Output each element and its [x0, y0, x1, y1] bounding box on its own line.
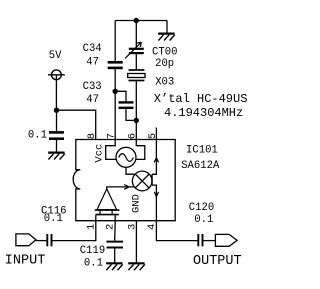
node top rail junction: [134, 18, 139, 23]
wire pin1 to input cap: [52, 221, 95, 241]
wire amp leg pin1: [95, 215, 97, 220]
svg-text:6: 6: [127, 133, 139, 139]
svg-text:47: 47: [86, 57, 99, 69]
arrow amp to mixer: [124, 185, 129, 190]
svg-text:X03: X03: [155, 77, 174, 89]
amplifier pedestal: [100, 211, 112, 214]
svg-text:X’tal HC-49US: X’tal HC-49US: [154, 92, 248, 106]
svg-text:0.1: 0.1: [194, 214, 213, 226]
svg-text:5V: 5V: [49, 50, 62, 62]
svg-text:0.1: 0.1: [44, 213, 63, 225]
connector INPUT: [16, 234, 36, 246]
wire C34 to pin7: [114, 69, 116, 139]
ground top right: [158, 34, 175, 41]
wire C33 to pin6 node: [126, 109, 136, 120]
oscillator yoke left (pin7): [106, 140, 117, 160]
svg-text:Vcc: Vcc: [94, 144, 106, 163]
amplifier lower bar: [95, 214, 118, 216]
svg-text:20p: 20p: [155, 58, 174, 70]
capacitor C116: [47, 234, 51, 246]
wire output cap to connector: [204, 240, 216, 242]
svg-text:SA612A: SA612A: [181, 160, 220, 172]
wire pin2 to C119: [114, 221, 117, 241]
crystal X03: [128, 70, 145, 81]
svg-text:4: 4: [146, 224, 158, 230]
ground pin3: [128, 263, 145, 270]
connector OUTPUT: [215, 234, 237, 246]
oscillator yoke right (pin6): [136, 140, 145, 160]
svg-text:GND: GND: [131, 194, 143, 213]
arrow up to pin5: [154, 158, 158, 163]
svg-text:3: 3: [126, 224, 138, 230]
svg-text:C120: C120: [189, 202, 214, 214]
power terminal 5V: [48, 70, 65, 80]
wire pin3 to ground: [135, 221, 137, 263]
capacitor C120: [198, 234, 202, 246]
node 5V rail junction: [54, 108, 59, 113]
mixer output bar: [151, 174, 153, 185]
svg-text:INPUT: INPUT: [5, 253, 46, 268]
capacitor C34: [108, 62, 123, 68]
svg-text:C34: C34: [83, 43, 102, 55]
svg-text:47: 47: [86, 94, 99, 106]
wire amp output to mixer with arrow: [107, 187, 135, 189]
svg-text:0.1: 0.1: [28, 130, 47, 142]
svg-text:CT00: CT00: [152, 46, 177, 58]
wire 5V down: [55, 75, 57, 110]
svg-text:C33: C33: [83, 81, 102, 93]
wire oscillator to mixer: [126, 167, 134, 174]
svg-text:1: 1: [85, 224, 97, 230]
svg-text:2: 2: [105, 224, 117, 230]
wire 5V to pin8: [57, 110, 96, 139]
wire amp leg pin2: [114, 215, 116, 220]
svg-text:5: 5: [147, 133, 159, 139]
wire mixer bar to pin4: [152, 185, 156, 221]
wire CT00 branch upper: [135, 21, 137, 48]
op-amp U1 IC outline SA612A: [73, 140, 175, 221]
wire C34 branch upper: [114, 21, 116, 62]
amplifier triangle Q: [97, 189, 117, 210]
arrow down to pin4: [154, 192, 158, 197]
mixer X diagonals: [135, 174, 149, 188]
wire C119 to ground: [114, 249, 116, 263]
trimmer capacitor CT00: [125, 42, 144, 58]
wire crystal to pin6: [135, 81, 137, 139]
node C34-C33 junction: [113, 89, 118, 94]
svg-text:C119: C119: [80, 245, 105, 257]
oscillator symbol circle: [116, 147, 136, 167]
wire pin5 stub: [155, 128, 157, 140]
oscillator sine wave: [119, 154, 134, 162]
svg-text:7: 7: [106, 133, 118, 139]
wire CT00 to crystal: [135, 54, 137, 69]
wire top rail: [115, 20, 167, 22]
node crystal-pin6 junction: [134, 118, 139, 123]
wire pin4 to output cap: [156, 221, 197, 241]
amplifier base bar: [95, 209, 120, 211]
wire mixer bar to pin5: [152, 140, 156, 175]
wire C33 branch: [115, 91, 126, 101]
capacitor C33: [119, 102, 134, 107]
wire input cap to connector: [36, 240, 47, 242]
ground left bypass: [48, 153, 65, 160]
ground C119: [106, 263, 123, 270]
wire 5V to bypass cap: [56, 110, 58, 131]
mixer symbol circle: [132, 171, 152, 191]
svg-text:8: 8: [86, 133, 98, 139]
svg-text:4.194304MHz: 4.194304MHz: [164, 106, 243, 120]
wire ground stub top right: [166, 21, 168, 34]
capacitor C119: [107, 242, 124, 248]
capacitor bypass 0.1: [49, 132, 64, 138]
svg-text:OUTPUT: OUTPUT: [193, 254, 242, 269]
svg-text:0.1: 0.1: [84, 257, 103, 269]
wire bypass cap to ground: [56, 140, 58, 152]
svg-text:IC101: IC101: [186, 145, 218, 157]
